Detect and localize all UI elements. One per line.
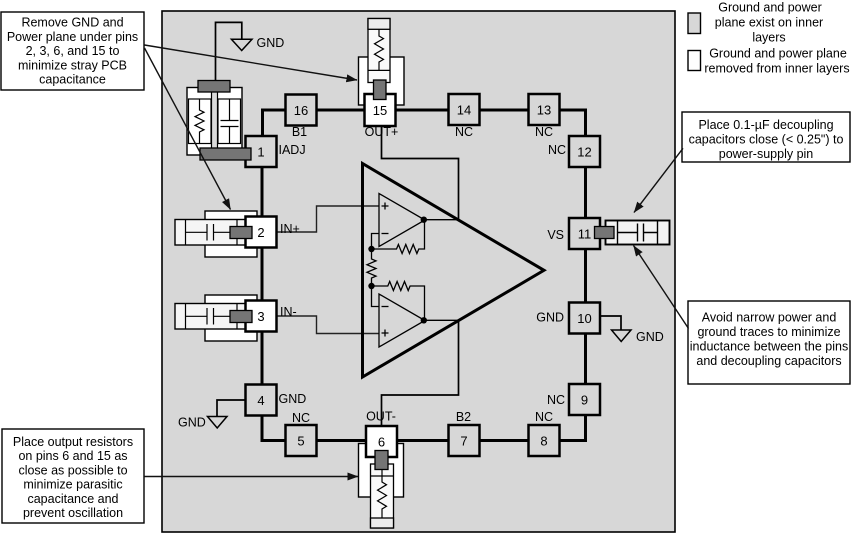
capacitor C3 footprint [175,304,247,330]
svg-text:VS: VS [547,228,564,242]
wire: pin10 to ground [600,316,621,330]
svg-text:Power plane under pins: Power plane under pins [7,30,138,44]
svg-text:4: 4 [257,393,264,408]
resistor R2 above pin 15: plane cutout [359,57,405,105]
svg-text:Ground and power: Ground and power [718,0,822,14]
svg-text:GND: GND [178,416,206,430]
pin 12 [569,136,600,167]
svg-text:GND: GND [636,330,664,344]
svg-text:B1: B1 [292,125,307,139]
capacitor C2 footprint [175,220,247,246]
svg-text:9: 9 [581,392,588,407]
svg-text:capacitance: capacitance [39,73,106,87]
pin 1 [246,136,277,167]
svg-text:5: 5 [297,433,304,448]
callout box: output resistors [2,429,144,523]
pad of R1/C1 (top) [198,81,230,93]
svg-text:GND: GND [536,311,564,325]
svg-text:power-supply pin: power-supply pin [719,147,814,161]
pad of R1/C1 (bottom, at pin 1) [200,148,251,160]
pin 2 [246,217,277,248]
wire: left column trace pins 1-2-3-4 [261,140,264,412]
capacitor C3 at pin 3: plane cutout [205,295,257,341]
svg-text:Avoid narrow power and: Avoid narrow power and [702,311,837,325]
svg-text:OUT-: OUT- [366,410,396,424]
svg-text:Ground and power plane: Ground and power plane [709,47,847,61]
resistor Rf2 (bottom feedback) [372,282,425,321]
wire: IN- from pin3 to amplifier [277,316,379,334]
svg-text:GND: GND [279,392,307,406]
ground (top GND symbol) [231,39,252,50]
svg-text:GND: GND [257,36,285,50]
svg-text:removed from inner layers: removed from inner layers [704,62,849,76]
wire: A1 output to OUT+ junction [424,219,459,221]
svg-text:2: 2 [257,225,264,240]
svg-text:NC: NC [535,125,553,139]
trace bar between pads [212,88,218,156]
svg-text:B2: B2 [456,410,471,424]
legend swatch: plane exists [688,13,701,34]
wire arrow: callout to decoupling caps [634,148,683,212]
svg-text:prevent oscillation: prevent oscillation [23,506,123,520]
resistor Rf1 (top feedback) [372,220,425,254]
svg-text:minimize stray PCB: minimize stray PCB [18,58,127,72]
ground plane (PCB inner plane region) [162,11,675,532]
wire arrow: callout to pin 2 capacitor [145,48,231,210]
svg-text:capacitance and: capacitance and [27,492,118,506]
callout box: avoid narrow traces [688,301,850,384]
svg-text:11: 11 [578,226,592,241]
pad of decoupling caps at pin 11 [595,227,615,239]
op-amp U1 (big difference amplifier triangle) [363,164,545,378]
legend swatch: plane removed [688,51,701,71]
ground (left GND symbol at pin 4) [208,417,228,429]
svg-text:15: 15 [373,103,387,118]
wire arrow: callout to decoupling caps bottom [634,246,689,329]
wire arrow: callout to pin 6 resistor [144,476,358,478]
pin 8 [529,425,560,456]
pin 14 [449,94,480,125]
svg-text:on pins 6 and 15 as: on pins 6 and 15 as [18,449,127,463]
svg-text:IADJ: IADJ [279,143,306,157]
ground (right GND symbol at pin 10) [612,330,632,342]
pin 5 [286,425,317,456]
svg-text:IN-: IN- [280,305,297,319]
wire: GND stub at top to RC pad [216,22,242,80]
svg-text:12: 12 [577,144,591,159]
wire: trace pin1 top to pin16 [263,110,287,140]
capacitor C1 footprint [218,99,241,144]
wire: trace pin4 bottom to pin5 [262,412,286,441]
svg-text:7: 7 [460,433,467,448]
capacitor C2 at pin 2: plane cutout [205,211,257,257]
svg-text:8: 8 [540,433,547,448]
svg-text:minimize parasitic: minimize parasitic [23,478,122,492]
svg-text:3: 3 [257,309,264,324]
pin 13 [529,94,560,125]
resistor Rg (gain resistor between nodes) [367,249,376,286]
pad of R2 at pin 15 [374,80,387,100]
pin 11 [569,218,600,249]
svg-text:6: 6 [378,434,385,449]
pin 16 [286,95,317,126]
svg-text:16: 16 [294,103,308,118]
wire: right column trace pins 12-11-10-9 [584,140,587,412]
svg-text:layers: layers [752,30,785,44]
resistor R1 footprint [189,99,212,144]
pin 15 [365,94,396,126]
svg-text:NC: NC [547,393,565,407]
wire: OUT- from pin6 up into amplifier [382,320,459,426]
svg-text:13: 13 [537,102,551,117]
svg-text:NC: NC [535,410,553,424]
svg-text:Remove GND and: Remove GND and [21,16,123,30]
svg-text:OUT+: OUT+ [365,125,399,139]
pin 10 [569,303,600,334]
callout box: remove GND plane [1,12,144,90]
svg-text:Place output resistors: Place output resistors [13,435,133,449]
resistor R3 footprint [371,464,394,528]
capacitor C4/C5 decoupling at pin 11 footprint [606,221,670,245]
pin 6 [366,426,397,457]
callout box: decoupling capacitors [682,112,850,162]
svg-text:10: 10 [577,311,591,326]
svg-text:NC: NC [292,411,310,425]
svg-text:1: 1 [257,144,264,159]
pin 3 [246,301,277,332]
wire arrow: callout to pin 15 resistor [145,45,358,80]
wire: bottom row trace pins 5-6-7-8 to pin9 [301,412,586,441]
pad of C2 at pin 2 [230,227,252,239]
svg-text:inductance between the pins: inductance between the pins [690,340,848,354]
resistor R3 below pin 6: plane cutout [359,444,404,498]
op-amp A1 (top internal op amp) [379,194,425,247]
capacitor/resistor network above pin 1: plane cutout [187,88,242,156]
svg-text:plane exist on inner: plane exist on inner [715,15,823,29]
wire: A2 output to OUT- junction [424,319,459,321]
svg-text:IN+: IN+ [280,222,300,236]
svg-text:Place 0.1-µF decoupling: Place 0.1-µF decoupling [698,118,833,132]
wire: OUT+ from pin15 down into amplifier [382,125,459,220]
pad of C3 at pin 3 [230,311,252,323]
svg-text:and decoupling capacitors: and decoupling capacitors [696,354,841,368]
pin 4 [246,385,277,416]
wire: pin4 to ground [217,400,246,417]
svg-text:capacitors close (< 0.25") to: capacitors close (< 0.25") to [689,133,844,147]
svg-text:NC: NC [455,125,473,139]
svg-text:close as possible to: close as possible to [18,463,127,477]
pin 7 [449,425,480,456]
svg-text:NC: NC [548,143,566,157]
wire: IN+ from pin2 to amplifier [277,206,379,232]
wire: top row trace pins 16-15-14-13 to pin12 [301,110,586,140]
node junction dots [368,246,374,252]
svg-text:ground traces to minimize: ground traces to minimize [697,325,840,339]
pin 9 [569,384,600,415]
pad of R3 at pin 6 [375,451,388,470]
svg-text:2, 3, 6, and 15 to: 2, 3, 6, and 15 to [26,44,120,58]
op-amp A2 (bottom internal op amp) [379,294,425,347]
svg-text:14: 14 [457,102,471,117]
resistor R2 footprint [368,19,390,83]
